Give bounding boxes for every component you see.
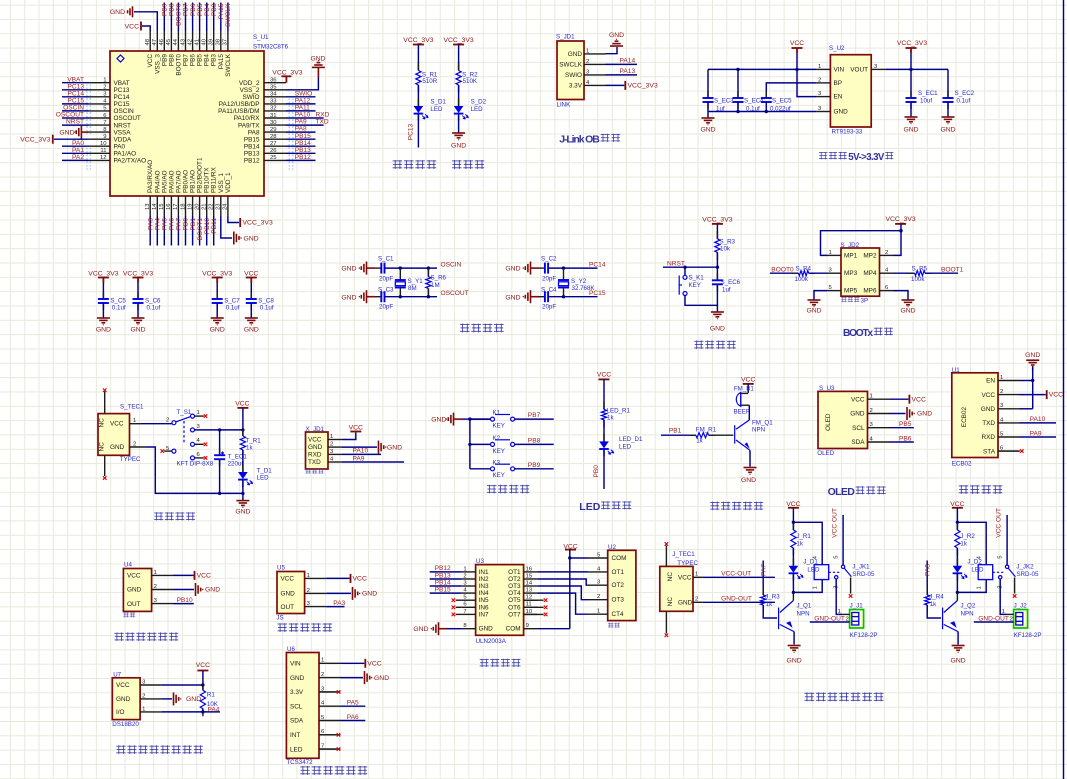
wire	[250, 303, 252, 318]
wire net PB13	[286, 152, 316, 154]
svg-text:1: 1	[463, 566, 466, 572]
svg-text:VCC: VCC	[1049, 392, 1063, 399]
svg-text:GND: GND	[110, 444, 125, 451]
wire VIN rail	[708, 68, 816, 70]
svg-text:VSS_1: VSS_1	[218, 173, 225, 193]
module U1 (ECB02) body	[952, 373, 998, 458]
svg-text:PB13: PB13	[295, 147, 311, 154]
svg-text:VSS_3: VSS_3	[154, 54, 161, 74]
svg-text:S_C4: S_C4	[541, 287, 557, 294]
svg-text:BOOT1: BOOT1	[197, 218, 204, 241]
svg-text:20pF: 20pF	[542, 276, 556, 283]
JD2 pins 1/2 (MP1/MP2)	[827, 254, 841, 256]
MCU left pin 11 (PA1/AO)	[89, 152, 111, 154]
wire EN/GND to ground	[1020, 380, 1033, 382]
svg-text:BOOT1: BOOT1	[941, 266, 964, 273]
switch pin4 nc	[195, 443, 204, 445]
svg-text:IN5: IN5	[479, 597, 489, 604]
svg-text:0.1uf: 0.1uf	[957, 98, 971, 105]
svg-text:VCC: VCC	[790, 40, 804, 47]
svg-text:1k: 1k	[796, 541, 803, 548]
svg-text:OT7: OT7	[508, 611, 521, 618]
J_TEC1 bottom pin	[665, 611, 667, 633]
op-amp U1 body (MCU STM32C8T6 S_U1)	[110, 51, 264, 196]
svg-text:PA3: PA3	[147, 218, 154, 230]
svg-text:OT1: OT1	[612, 569, 625, 576]
svg-text:PB6: PB6	[190, 3, 197, 16]
svg-text:PB6: PB6	[190, 54, 197, 67]
title buzzer circuit	[710, 502, 719, 511]
svg-text:1: 1	[142, 706, 145, 712]
svg-text:PA6: PA6	[169, 218, 176, 230]
svg-text:OSCIN: OSCIN	[114, 108, 135, 115]
wire OSCOUT	[385, 296, 438, 298]
relay J_JK2 coil	[978, 565, 993, 580]
svg-text:GND: GND	[951, 658, 966, 665]
ground relay J_Q1	[788, 645, 801, 647]
svg-text:U6: U6	[287, 646, 295, 653]
svg-text:S_JD2: S_JD2	[841, 242, 860, 249]
U2 pin 3 (EN)	[816, 96, 830, 98]
resistor J_R3 1k	[762, 588, 764, 596]
svg-text:SRD-05: SRD-05	[852, 571, 875, 578]
svg-text:GND: GND	[116, 696, 131, 703]
svg-text:S_EC2: S_EC2	[955, 90, 975, 97]
svg-text:U4: U4	[124, 561, 132, 568]
svg-text:MP3: MP3	[844, 270, 858, 277]
svg-text:21: 21	[202, 203, 208, 210]
svg-text:2: 2	[330, 442, 333, 448]
svg-text:STA: STA	[983, 448, 996, 455]
svg-text:I/O: I/O	[116, 709, 125, 716]
svg-text:2: 2	[597, 594, 600, 600]
capacitor EC3 (S_EC3 1uf)	[707, 69, 709, 98]
svg-text:SWIO: SWIO	[242, 94, 259, 101]
svg-text:PA5/AO: PA5/AO	[161, 170, 168, 193]
wire OSCIN	[385, 267, 438, 269]
svg-text:VCC: VCC	[851, 396, 865, 403]
svg-text:1: 1	[838, 609, 841, 615]
wire net PB3 (vertical)	[213, 3, 215, 32]
svg-text:S_C1: S_C1	[378, 256, 394, 263]
svg-text:COM: COM	[612, 555, 627, 562]
svg-text:GND: GND	[210, 327, 225, 334]
power VCC at U3 pin1	[889, 398, 908, 400]
MCU right pin 36 (VDD_2)	[264, 82, 286, 84]
wire net PA5 (vertical)	[163, 216, 165, 246]
svg-text:4: 4	[977, 555, 983, 559]
svg-text:PB11/RX: PB11/RX	[211, 166, 218, 193]
capacitor S_C8 0.1uf	[250, 292, 252, 299]
resistor S_R2 510K	[458, 63, 460, 71]
U2 pin 1 (CT4)	[588, 613, 608, 615]
U3 pin 2 (IN2)	[462, 578, 476, 580]
ground at U5 pin2	[326, 592, 351, 594]
module U5 (IR) body	[277, 572, 305, 614]
svg-text:46: 46	[159, 38, 165, 45]
svg-text:S_EC5: S_EC5	[772, 98, 792, 105]
svg-text:10uf: 10uf	[920, 98, 932, 105]
svg-text:PC15: PC15	[68, 98, 85, 105]
svg-text:PA15: PA15	[218, 3, 225, 19]
svg-text:OT2: OT2	[508, 576, 521, 583]
U2 pin 2 (BP)	[816, 82, 830, 84]
wire net PB10	[174, 603, 194, 605]
U3 pin 12 (OT5)	[524, 599, 538, 601]
U5 pin 2 (GND)	[305, 592, 327, 594]
svg-text:20pF: 20pF	[379, 304, 393, 311]
svg-text:S_C5: S_C5	[110, 298, 126, 305]
ground relay J_Q2	[952, 645, 965, 647]
svg-text:7: 7	[463, 609, 466, 615]
wire	[603, 379, 605, 409]
wire net PB9 (vertical)	[163, 3, 165, 32]
U3 pin 9 (COM)	[524, 628, 538, 630]
svg-text:13: 13	[526, 588, 533, 594]
svg-text:PB1: PB1	[190, 218, 197, 231]
title color detect module	[300, 766, 310, 775]
svg-text:PB14: PB14	[244, 143, 260, 150]
wire net PA7 (vertical)	[177, 216, 179, 246]
resistor S_R1 510R	[417, 63, 419, 71]
J_TEC1 pin 1 VCC-OUT	[693, 576, 703, 578]
svg-text:1uf: 1uf	[716, 106, 725, 113]
svg-text:2: 2	[463, 573, 466, 579]
wire net BOOT0 (vertical)	[177, 3, 179, 32]
svg-text:VCC_3V3: VCC_3V3	[885, 216, 915, 223]
ground at JD2 pin 5	[814, 291, 827, 300]
relay J_JK2 switch	[993, 571, 1004, 573]
svg-text:ECB02: ECB02	[961, 407, 968, 428]
U3 pin 8 (GND)	[462, 628, 476, 630]
svg-text:PA5: PA5	[347, 700, 359, 707]
svg-text:OUT: OUT	[127, 601, 141, 608]
svg-text:SRD-05: SRD-05	[1016, 571, 1039, 578]
svg-text:PB3: PB3	[211, 54, 218, 67]
U6 pin 4 (SCL)	[319, 705, 341, 707]
U2 pin 1 (VIN)	[816, 68, 830, 70]
MCU right pin 28 (PB15)	[264, 138, 286, 140]
svg-text:GND: GND	[678, 599, 693, 606]
svg-text:RXD: RXD	[982, 434, 996, 441]
capacitor EC2 (S_EC2 0.1uf)	[947, 69, 949, 98]
power VCC at U6 VIN	[341, 662, 365, 664]
svg-text:PA12: PA12	[295, 98, 311, 105]
svg-text:GND: GND	[806, 308, 821, 315]
wire net PB1	[661, 434, 696, 436]
svg-text:VCC: VCC	[950, 501, 964, 508]
resistor R5 (S_R5 100k)	[908, 272, 915, 274]
wire	[956, 548, 958, 566]
svg-text:NC: NC	[667, 572, 674, 582]
svg-text:22: 22	[209, 203, 215, 210]
ground below S_C8	[245, 317, 258, 319]
capacitor EC1 (S_EC1 10uf)	[910, 69, 912, 98]
wire net PB5	[889, 427, 914, 429]
svg-text:13: 13	[145, 203, 151, 210]
driver U3 (ULN2003A) body	[476, 565, 524, 636]
svg-text:37: 37	[223, 39, 229, 46]
wire	[716, 224, 718, 239]
ground buzzer	[744, 467, 757, 469]
transistor J_Q1 NPN	[778, 608, 780, 630]
svg-text:GND-OUT: GND-OUT	[978, 616, 1009, 623]
svg-text:COM: COM	[506, 626, 521, 633]
wire	[792, 508, 794, 530]
wire emitter	[749, 450, 751, 466]
JD2 pins 5/6 (MP5/MP6)	[827, 290, 841, 292]
svg-text:PA7: PA7	[176, 218, 183, 230]
svg-text:SWCLK: SWCLK	[225, 53, 232, 76]
svg-text:PB0: PB0	[593, 465, 600, 478]
svg-text:GND: GND	[59, 130, 74, 137]
wire VCC-COM	[569, 550, 571, 558]
MCU left pin 9 (VDDA)	[89, 138, 111, 140]
wire net PB8 (vertical)	[170, 3, 172, 32]
svg-text:T_S1: T_S1	[177, 409, 192, 416]
svg-text:LED: LED	[471, 106, 484, 113]
svg-text:GND: GND	[741, 477, 756, 484]
svg-text:S_R3: S_R3	[720, 239, 736, 246]
X_JD1 pin 1 (VCC)	[328, 439, 342, 441]
svg-text:J_JK2: J_JK2	[1016, 564, 1034, 571]
svg-text:35: 35	[270, 85, 277, 91]
MCU right pin 35 (VSS_2)	[264, 89, 286, 91]
svg-text:PB7: PB7	[183, 54, 190, 67]
svg-text:KEY: KEY	[493, 472, 505, 479]
svg-text:U7: U7	[113, 671, 121, 678]
diode LED S_D2	[458, 99, 460, 107]
wire net PA14	[606, 63, 638, 65]
svg-text:GND: GND	[96, 327, 111, 334]
svg-text:VIN: VIN	[290, 661, 301, 668]
wire net PA9	[286, 124, 324, 126]
resistor R6 (S_R6 1M)	[427, 268, 429, 277]
svg-text:29: 29	[270, 127, 277, 133]
svg-text:NC: NC	[99, 442, 106, 452]
U2 pin 5 (COM)	[588, 557, 608, 559]
U3 pin 5 (IN5)	[462, 599, 476, 601]
svg-text:41: 41	[194, 39, 200, 46]
svg-text:GND: GND	[110, 9, 125, 16]
wire net BOOT0	[770, 272, 798, 274]
resistor LED_R1 1k	[603, 402, 605, 410]
svg-text:OSCOUT: OSCOUT	[56, 112, 84, 119]
MCU top pin 48 (VCC)	[149, 31, 151, 51]
svg-text:VCC OUT: VCC OUT	[995, 508, 1002, 538]
connector J_J2 (KF128-2P)	[1014, 610, 1028, 629]
capacitor S_C7 0.1uf	[216, 292, 218, 299]
svg-text:SWIO: SWIO	[565, 72, 582, 79]
svg-text:PB2/BOOT1: PB2/BOOT1	[197, 157, 204, 193]
U3 IN5 no connect	[456, 599, 462, 601]
svg-text:20: 20	[194, 203, 200, 210]
svg-text:PA1: PA1	[72, 147, 84, 154]
svg-text:GND: GND	[244, 327, 259, 334]
svg-text:GND: GND	[609, 32, 624, 39]
svg-text:3: 3	[197, 424, 201, 430]
svg-text:PC14: PC14	[589, 262, 606, 269]
svg-text:2: 2	[885, 250, 888, 256]
U2 pin 3 (GND)	[816, 111, 830, 113]
svg-text:ULN2003A: ULN2003A	[476, 638, 507, 645]
svg-text:9: 9	[103, 134, 106, 140]
MCU part marker icon	[117, 55, 124, 62]
svg-text:MP5: MP5	[844, 288, 858, 295]
svg-text:PA11: PA11	[295, 105, 310, 112]
svg-text:NC: NC	[99, 418, 106, 428]
diode LED_D1	[603, 434, 605, 442]
ground reset	[711, 311, 724, 313]
sheet border	[1063, 0, 1065, 779]
wire pin1-pin2 loop	[821, 231, 902, 256]
svg-text:100k: 100k	[911, 276, 925, 283]
wire net PB11 (vertical)	[213, 216, 215, 246]
connector JD2 (jumper) body	[841, 248, 880, 296]
U4 pin 3 (OUT)	[152, 603, 174, 605]
svg-text:LED: LED	[430, 106, 443, 113]
capacitor EC4 (S_EC4 0.1uf)	[737, 69, 739, 98]
svg-text:VCC: VCC	[912, 396, 926, 403]
MCU left pin 10 (PA0)	[89, 145, 111, 147]
MCU right pin 31 (PA10/RX)	[264, 117, 286, 119]
wire OT3 jog	[538, 586, 588, 600]
svg-text:VCC_3V3: VCC_3V3	[628, 83, 658, 90]
ground below S_C5	[97, 317, 110, 319]
svg-text:23: 23	[216, 203, 222, 210]
svg-text:U1: U1	[952, 367, 960, 374]
svg-text:VCC: VCC	[349, 425, 363, 432]
wire base	[709, 434, 734, 436]
svg-text:KEY: KEY	[493, 423, 505, 430]
title stepper motor	[480, 659, 489, 667]
svg-text:S_R6: S_R6	[431, 275, 447, 282]
svg-text:PC15: PC15	[589, 290, 606, 297]
wire net PA5	[341, 705, 366, 707]
svg-text:KF128-2P: KF128-2P	[850, 632, 878, 639]
U6 pin 6 (INT)	[319, 734, 341, 736]
svg-text:VDDA: VDDA	[114, 136, 132, 143]
svg-text:FM_Q1: FM_Q1	[752, 419, 773, 426]
wire	[809, 272, 827, 274]
svg-text:J_Q2: J_Q2	[961, 603, 976, 610]
label download port	[306, 469, 311, 474]
svg-text:NPN: NPN	[797, 611, 810, 618]
svg-text:45: 45	[166, 38, 172, 45]
title crystal circuit	[460, 324, 470, 333]
wire net PB1 (vertical)	[192, 216, 194, 246]
svg-text:VCC: VCC	[982, 392, 996, 399]
svg-text:1: 1	[307, 573, 310, 579]
svg-text:BOOT0: BOOT0	[771, 266, 794, 273]
transistor Q1 (FM_Q1 NPN)	[734, 425, 736, 443]
MCU bottom pin 15 (PA5/AO)	[163, 196, 165, 216]
ground at MCU pin 35 VSS_2	[286, 78, 318, 90]
wire	[603, 420, 605, 442]
wire PC15	[548, 296, 597, 298]
label jumper cap 3P	[841, 297, 846, 302]
svg-text:J_R4: J_R4	[929, 594, 944, 601]
wire GND rail	[146, 447, 243, 500]
svg-text:PB11: PB11	[211, 218, 218, 234]
crystal Y2 (S_Y2 32.768K)	[563, 268, 565, 280]
wire	[417, 85, 419, 106]
svg-text:PB5: PB5	[197, 3, 204, 16]
svg-text:PA6/AO: PA6/AO	[168, 170, 175, 193]
wire net NRST	[663, 266, 717, 268]
svg-text:PB5: PB5	[197, 54, 204, 67]
svg-text:VCC: VCC	[308, 437, 322, 444]
svg-text:IN7: IN7	[479, 611, 489, 618]
svg-text:S_K1: S_K1	[689, 275, 705, 282]
svg-text:J_J1: J_J1	[850, 602, 864, 609]
wire net PA10 at X_JD1	[342, 453, 381, 455]
svg-text:OT6: OT6	[508, 604, 521, 611]
wire net PA3 (vertical)	[149, 216, 151, 246]
svg-text:5: 5	[998, 555, 1004, 559]
svg-text:PB5: PB5	[899, 421, 912, 428]
wire net PA0	[62, 145, 89, 147]
svg-text:FM_R1: FM_R1	[696, 427, 717, 434]
svg-text:1: 1	[133, 418, 136, 424]
svg-text:KFT DIP-8X8: KFT DIP-8X8	[177, 460, 214, 467]
title power circuit	[154, 512, 163, 520]
U2 pin 3 (OT2)	[588, 584, 608, 586]
wire net SWIO	[286, 96, 316, 98]
power VCC at U5 pin1	[326, 577, 349, 579]
resistor R3 (S_R3 10k)	[716, 231, 718, 239]
wire	[685, 296, 717, 313]
svg-text:GND: GND	[362, 591, 377, 598]
svg-text:3.3V: 3.3V	[290, 689, 304, 696]
svg-text:S_D2: S_D2	[471, 99, 487, 106]
svg-text:GND: GND	[127, 587, 142, 594]
svg-text:NRST: NRST	[667, 260, 685, 267]
svg-text:S_TEC1: S_TEC1	[120, 404, 144, 411]
svg-text:SCL: SCL	[290, 703, 303, 710]
svg-text:1: 1	[321, 658, 324, 664]
wire net PB12	[430, 571, 462, 573]
svg-text:34: 34	[270, 92, 277, 98]
wire BP rail	[766, 83, 816, 98]
svg-text:SDA: SDA	[851, 439, 865, 446]
wire	[894, 272, 915, 274]
U6 pin 5 (SDA)	[319, 720, 341, 722]
U3 pin 1 (VCC)	[868, 398, 890, 400]
MCU right pin 33 (PA12/USB/DP)	[264, 103, 286, 105]
svg-text:VSSA: VSSA	[114, 129, 132, 136]
svg-text:VCC: VCC	[116, 682, 130, 689]
svg-text:1: 1	[1002, 609, 1005, 615]
MCU bottom pin 21 (PB10/TX)	[206, 196, 208, 216]
svg-text:VCC_3V3: VCC_3V3	[403, 37, 433, 44]
svg-text:GND: GND	[130, 327, 145, 334]
wire switch out	[195, 429, 243, 431]
svg-text:PA9: PA9	[1030, 430, 1042, 437]
svg-text:VCC_3V3: VCC_3V3	[243, 220, 273, 227]
svg-text:VBAT: VBAT	[67, 76, 84, 83]
power VCC at MCU pin 48	[142, 26, 150, 31]
J_TEC1 pin 2 GND-OUT	[693, 601, 703, 603]
svg-text:RT9193-33: RT9193-33	[832, 129, 863, 136]
wire	[137, 303, 139, 318]
svg-text:4: 4	[813, 555, 819, 559]
power VCC_3V3 at JD1 pin 4	[606, 84, 625, 86]
svg-text:3.3V: 3.3V	[569, 83, 583, 90]
diode LED J_D2	[956, 558, 958, 566]
svg-text:PA6: PA6	[347, 714, 359, 721]
ground at U7 pin2	[162, 698, 172, 700]
